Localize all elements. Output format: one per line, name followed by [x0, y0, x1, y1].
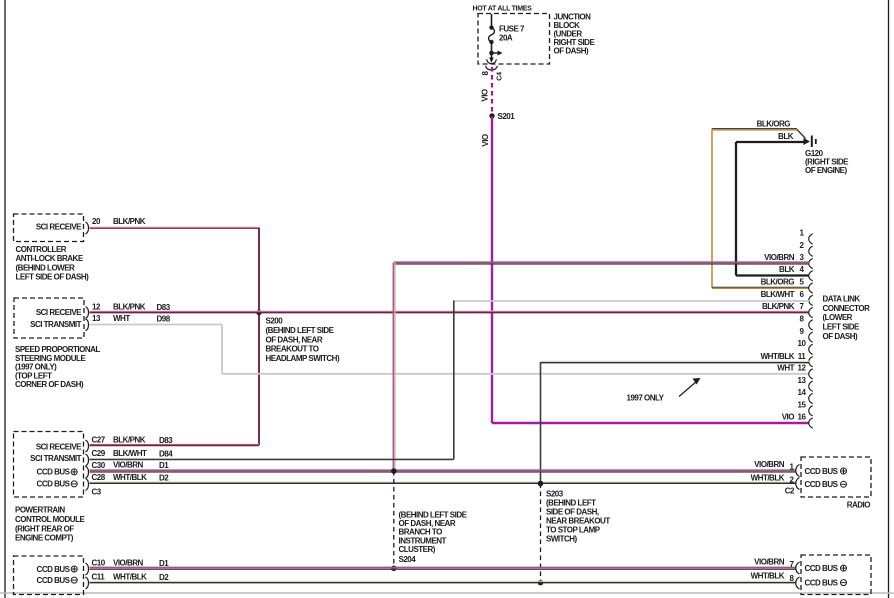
1997 ONLY annotation — [627, 378, 701, 403]
svg-text:LEFT SIDE: LEFT SIDE — [823, 323, 861, 332]
wire VIO/BRN C10 to CCD pin7 — [90, 568, 796, 570]
svg-text:CCD BUS: CCD BUS — [37, 480, 71, 489]
splice junction on VIO/BRN bus — [391, 468, 397, 474]
svg-text:BLK/PNK: BLK/PNK — [113, 217, 146, 226]
svg-text:S201: S201 — [498, 112, 516, 121]
page bottom rule — [0, 592, 894, 594]
powertrain control module (dashed box) — [14, 432, 84, 498]
svg-text:(TOP LEFT: (TOP LEFT — [15, 371, 52, 380]
svg-text:SWITCH): SWITCH) — [546, 535, 578, 544]
splice S203 dashed link — [540, 484, 542, 583]
wire VIO vertical S201 to DLC row — [491, 116, 493, 423]
svg-text:BLK: BLK — [778, 132, 794, 141]
br pin bracket 8 — [796, 577, 800, 589]
DLC wire labels — [761, 253, 795, 422]
svg-text:7: 7 — [800, 302, 805, 311]
svg-text:WHT/BLK: WHT/BLK — [113, 473, 147, 482]
svg-text:D2: D2 — [159, 474, 169, 483]
svg-text:2: 2 — [800, 241, 805, 250]
svg-text:WHT/BLK: WHT/BLK — [751, 473, 785, 482]
ABS pin bracket — [86, 222, 89, 234]
svg-text:FUSE 7: FUSE 7 — [499, 25, 525, 34]
radio (dashed box) — [801, 457, 871, 497]
svg-text:SCI TRANSMIT: SCI TRANSMIT — [30, 454, 82, 463]
svg-text:LEFT SIDE OF DASH): LEFT SIDE OF DASH) — [16, 273, 90, 282]
svg-text:5: 5 — [800, 278, 805, 287]
module2 pin bracket 12 — [86, 307, 89, 319]
svg-text:CCD BUS: CCD BUS — [805, 578, 839, 587]
svg-text:WHT: WHT — [113, 314, 130, 323]
speed proportional steering module (dashed box) — [14, 298, 84, 338]
svg-text:SPEED PROPORTIONAL: SPEED PROPORTIONAL — [15, 345, 100, 354]
module2 pin bracket 13 — [86, 319, 89, 331]
svg-text:(LOWER: (LOWER — [823, 313, 853, 322]
svg-text:SCI RECEIVE: SCI RECEIVE — [36, 223, 82, 232]
wire BLK/WHT C29 — [90, 458, 454, 460]
svg-text:VIO/BRN: VIO/BRN — [113, 559, 144, 568]
svg-text:OF ENGINE): OF ENGINE) — [805, 166, 848, 175]
svg-text:WHT/BLK: WHT/BLK — [751, 572, 785, 581]
svg-text:VIO: VIO — [481, 134, 490, 147]
svg-text:1: 1 — [800, 229, 805, 238]
svg-text:C27: C27 — [92, 436, 106, 445]
svg-text:OF DASH, NEAR: OF DASH, NEAR — [266, 335, 323, 344]
svg-text:CLUSTER): CLUSTER) — [399, 545, 436, 554]
PCM pin bracket C28 — [86, 478, 89, 490]
svg-text:D84: D84 — [159, 450, 173, 459]
splice junction on WHT/BLK bottom bus — [538, 580, 544, 586]
svg-text:CCD BUS: CCD BUS — [37, 576, 71, 585]
data link connector pins — [798, 229, 813, 429]
svg-text:CCD BUS: CCD BUS — [805, 564, 839, 573]
splice S203 — [538, 481, 544, 487]
svg-text:(BEHIND LOWER: (BEHIND LOWER — [16, 263, 76, 272]
svg-text:CCD BUS: CCD BUS — [37, 565, 71, 574]
svg-text:12: 12 — [92, 303, 101, 312]
wire fuse to junction dot — [491, 42, 493, 59]
wire BLK/PNK from ABS pin 20 — [90, 227, 260, 228]
svg-text:BLK/PNK: BLK/PNK — [113, 436, 146, 445]
PCM pin bracket C27 — [86, 440, 89, 452]
br pin bracket 7 — [796, 562, 800, 574]
splice S201 — [489, 113, 494, 118]
svg-text:ENGINE COMPT): ENGINE COMPT) — [15, 534, 74, 543]
svg-text:C4: C4 — [497, 72, 504, 81]
svg-text:(BEHIND LEFT: (BEHIND LEFT — [546, 499, 596, 508]
ground G120 — [804, 136, 816, 148]
svg-text:WHT/BLK: WHT/BLK — [113, 573, 147, 582]
svg-text:BLK/WHT: BLK/WHT — [113, 449, 147, 458]
svg-text:D98: D98 — [157, 315, 171, 324]
svg-text:14: 14 — [798, 388, 807, 397]
svg-text:(RIGHT REAR OF: (RIGHT REAR OF — [15, 524, 74, 533]
wire VIO/BRN vertical to S204 — [393, 263, 395, 472]
wire WHT/BLK C11 to CCD pin8 — [90, 581, 796, 582]
svg-text:ANTI-LOCK BRAKE: ANTI-LOCK BRAKE — [16, 254, 84, 263]
svg-text:OF DASH): OF DASH) — [554, 47, 590, 56]
svg-text:RADIO: RADIO — [847, 501, 871, 510]
instrument cluster CCD module (dashed box, bottom left) — [14, 556, 84, 595]
wire BLK/PNK C27 to splice column — [90, 444, 260, 445]
wire VIO/BRN C30 to radio pin1 — [90, 470, 796, 472]
svg-text:VIO: VIO — [782, 413, 795, 422]
box4 pin bracket C11 — [86, 577, 89, 589]
wire BLK top horizontal — [736, 141, 805, 143]
svg-text:POWERTRAIN: POWERTRAIN — [15, 506, 65, 515]
wire VIO horizontal to DLC pin 16 — [492, 422, 809, 424]
svg-text:20A: 20A — [499, 34, 513, 43]
svg-text:(BEHIND LEFT SIDE: (BEHIND LEFT SIDE — [266, 326, 335, 335]
wire WHT/BLK vertical to S203 — [540, 362, 542, 484]
splice S200 — [256, 310, 262, 316]
splice S204 dashed link — [393, 471, 395, 568]
controller anti-lock brake (dashed box) — [14, 214, 84, 242]
svg-text:NEAR BREAKOUT: NEAR BREAKOUT — [546, 517, 610, 526]
CCD bus module (dashed box, bottom right) — [801, 555, 871, 595]
svg-text:VIO/BRN: VIO/BRN — [754, 460, 785, 469]
wire BLK/PNK vertical (ABS to PCM via S200) — [258, 228, 260, 446]
svg-text:STEERING MODULE: STEERING MODULE — [15, 354, 86, 363]
svg-text:CCD BUS: CCD BUS — [805, 480, 839, 489]
svg-text:8: 8 — [800, 315, 805, 324]
svg-text:CONTROL MODULE: CONTROL MODULE — [15, 515, 85, 524]
box4 pin bracket C10 — [86, 563, 89, 575]
wire BLK/WHT vertical — [453, 301, 455, 460]
svg-text:BLK: BLK — [779, 265, 795, 274]
wire BLK/WHT light horizontal to DLC pin6 — [454, 300, 809, 302]
svg-text:S204: S204 — [399, 555, 417, 564]
svg-text:CCD BUS: CCD BUS — [37, 468, 71, 477]
splice S204 — [391, 566, 397, 572]
svg-text:VIO/BRN: VIO/BRN — [113, 461, 144, 470]
svg-text:9: 9 — [800, 327, 805, 336]
page right border — [888, 0, 890, 598]
svg-text:SCI RECEIVE: SCI RECEIVE — [36, 442, 82, 451]
svg-text:C10: C10 — [92, 559, 106, 568]
svg-text:VIO: VIO — [481, 89, 490, 102]
svg-text:11: 11 — [798, 352, 807, 361]
svg-text:BLK/ORG: BLK/ORG — [761, 278, 795, 287]
svg-text:16: 16 — [798, 413, 807, 422]
svg-text:CONTROLLER: CONTROLLER — [16, 245, 67, 254]
radio pin bracket 1 — [796, 465, 800, 477]
PCM pin bracket C30 — [86, 466, 89, 478]
wire BLK into DLC pin 4 — [736, 274, 809, 276]
junction block (dashed box) — [478, 14, 550, 65]
wire BLK/ORG top horizontal — [712, 129, 797, 130]
wire BLK/PNK module2 pin12 to DLC pin 7 — [90, 311, 810, 312]
svg-text:SCI RECEIVE: SCI RECEIVE — [36, 308, 82, 317]
svg-text:CCD BUS: CCD BUS — [805, 467, 839, 476]
wire WHT to DLC pin 12 — [222, 373, 809, 375]
svg-text:SCI TRANSMIT: SCI TRANSMIT — [30, 320, 82, 329]
junction dot with branch arrow — [489, 51, 502, 56]
fuse FUSE 7 20A — [489, 25, 525, 45]
svg-text:12: 12 — [798, 364, 807, 373]
svg-text:CORNER OF DASH): CORNER OF DASH) — [15, 380, 84, 389]
wire WHT/BLK DLC pin11 horizontal — [541, 361, 810, 362]
svg-text:S200: S200 — [266, 317, 284, 326]
svg-text:S203: S203 — [546, 490, 564, 499]
svg-text:TO STOP LAMP: TO STOP LAMP — [546, 526, 601, 535]
svg-text:3: 3 — [800, 253, 805, 262]
svg-text:BLK/PNK: BLK/PNK — [113, 303, 146, 312]
svg-text:OF DASH): OF DASH) — [823, 332, 859, 341]
wire VIO/BRN DLC pin3 horizontal — [394, 262, 809, 264]
svg-text:HEADLAMP SWITCH): HEADLAMP SWITCH) — [266, 354, 340, 363]
svg-text:D1: D1 — [159, 461, 169, 470]
wire BLK/ORG diagonal into ground — [797, 130, 806, 139]
wire WHT vertical — [221, 325, 223, 374]
wire from box top to fuse — [491, 14, 493, 28]
svg-text:13: 13 — [798, 376, 807, 385]
wire WHT/BLK C28 to radio pin2 — [90, 482, 796, 483]
svg-text:15: 15 — [798, 400, 807, 409]
svg-text:CONNECTOR: CONNECTOR — [823, 304, 871, 313]
svg-text:WHT: WHT — [777, 364, 794, 373]
svg-text:C11: C11 — [92, 573, 106, 582]
svg-text:20: 20 — [92, 217, 101, 226]
svg-text:WHT/BLK: WHT/BLK — [761, 352, 795, 361]
svg-text:10: 10 — [798, 339, 807, 348]
connector terminal arrow into cup — [486, 58, 498, 71]
svg-text:C2: C2 — [785, 487, 795, 496]
svg-text:SIDE OF DASH,: SIDE OF DASH, — [546, 508, 599, 517]
svg-text:1997 ONLY: 1997 ONLY — [627, 394, 665, 403]
svg-text:BLK/ORG: BLK/ORG — [757, 120, 791, 129]
svg-text:C30: C30 — [92, 461, 106, 470]
wire BLK/ORG into DLC pin 5 — [712, 287, 809, 288]
PCM pin bracket C29 — [86, 454, 89, 466]
svg-text:DATA LINK: DATA LINK — [823, 294, 861, 303]
svg-text:VIO/BRN: VIO/BRN — [754, 558, 785, 567]
svg-text:C29: C29 — [92, 449, 106, 458]
svg-text:(1997 ONLY): (1997 ONLY) — [15, 363, 57, 372]
svg-text:8: 8 — [481, 70, 490, 75]
svg-text:6: 6 — [800, 290, 805, 299]
svg-text:BREAKOUT TO: BREAKOUT TO — [266, 345, 319, 354]
svg-text:13: 13 — [92, 314, 101, 323]
svg-text:4: 4 — [800, 265, 805, 274]
svg-text:C3: C3 — [92, 487, 102, 496]
svg-text:C28: C28 — [92, 473, 106, 482]
svg-text:VIO/BRN: VIO/BRN — [764, 253, 795, 262]
svg-text:HOT AT ALL TIMES: HOT AT ALL TIMES — [473, 6, 533, 13]
wire VIO dashed (fuse output to S201) — [491, 67, 493, 116]
wire WHT module2 pin13 — [90, 324, 223, 326]
page left border — [4, 0, 6, 598]
svg-text:BLK/WHT: BLK/WHT — [761, 290, 795, 299]
wire BLK vertical — [735, 142, 737, 276]
radio pin bracket 2 — [796, 478, 800, 490]
svg-text:BLK/PNK: BLK/PNK — [762, 302, 795, 311]
wire BLK/ORG vertical — [711, 129, 713, 288]
